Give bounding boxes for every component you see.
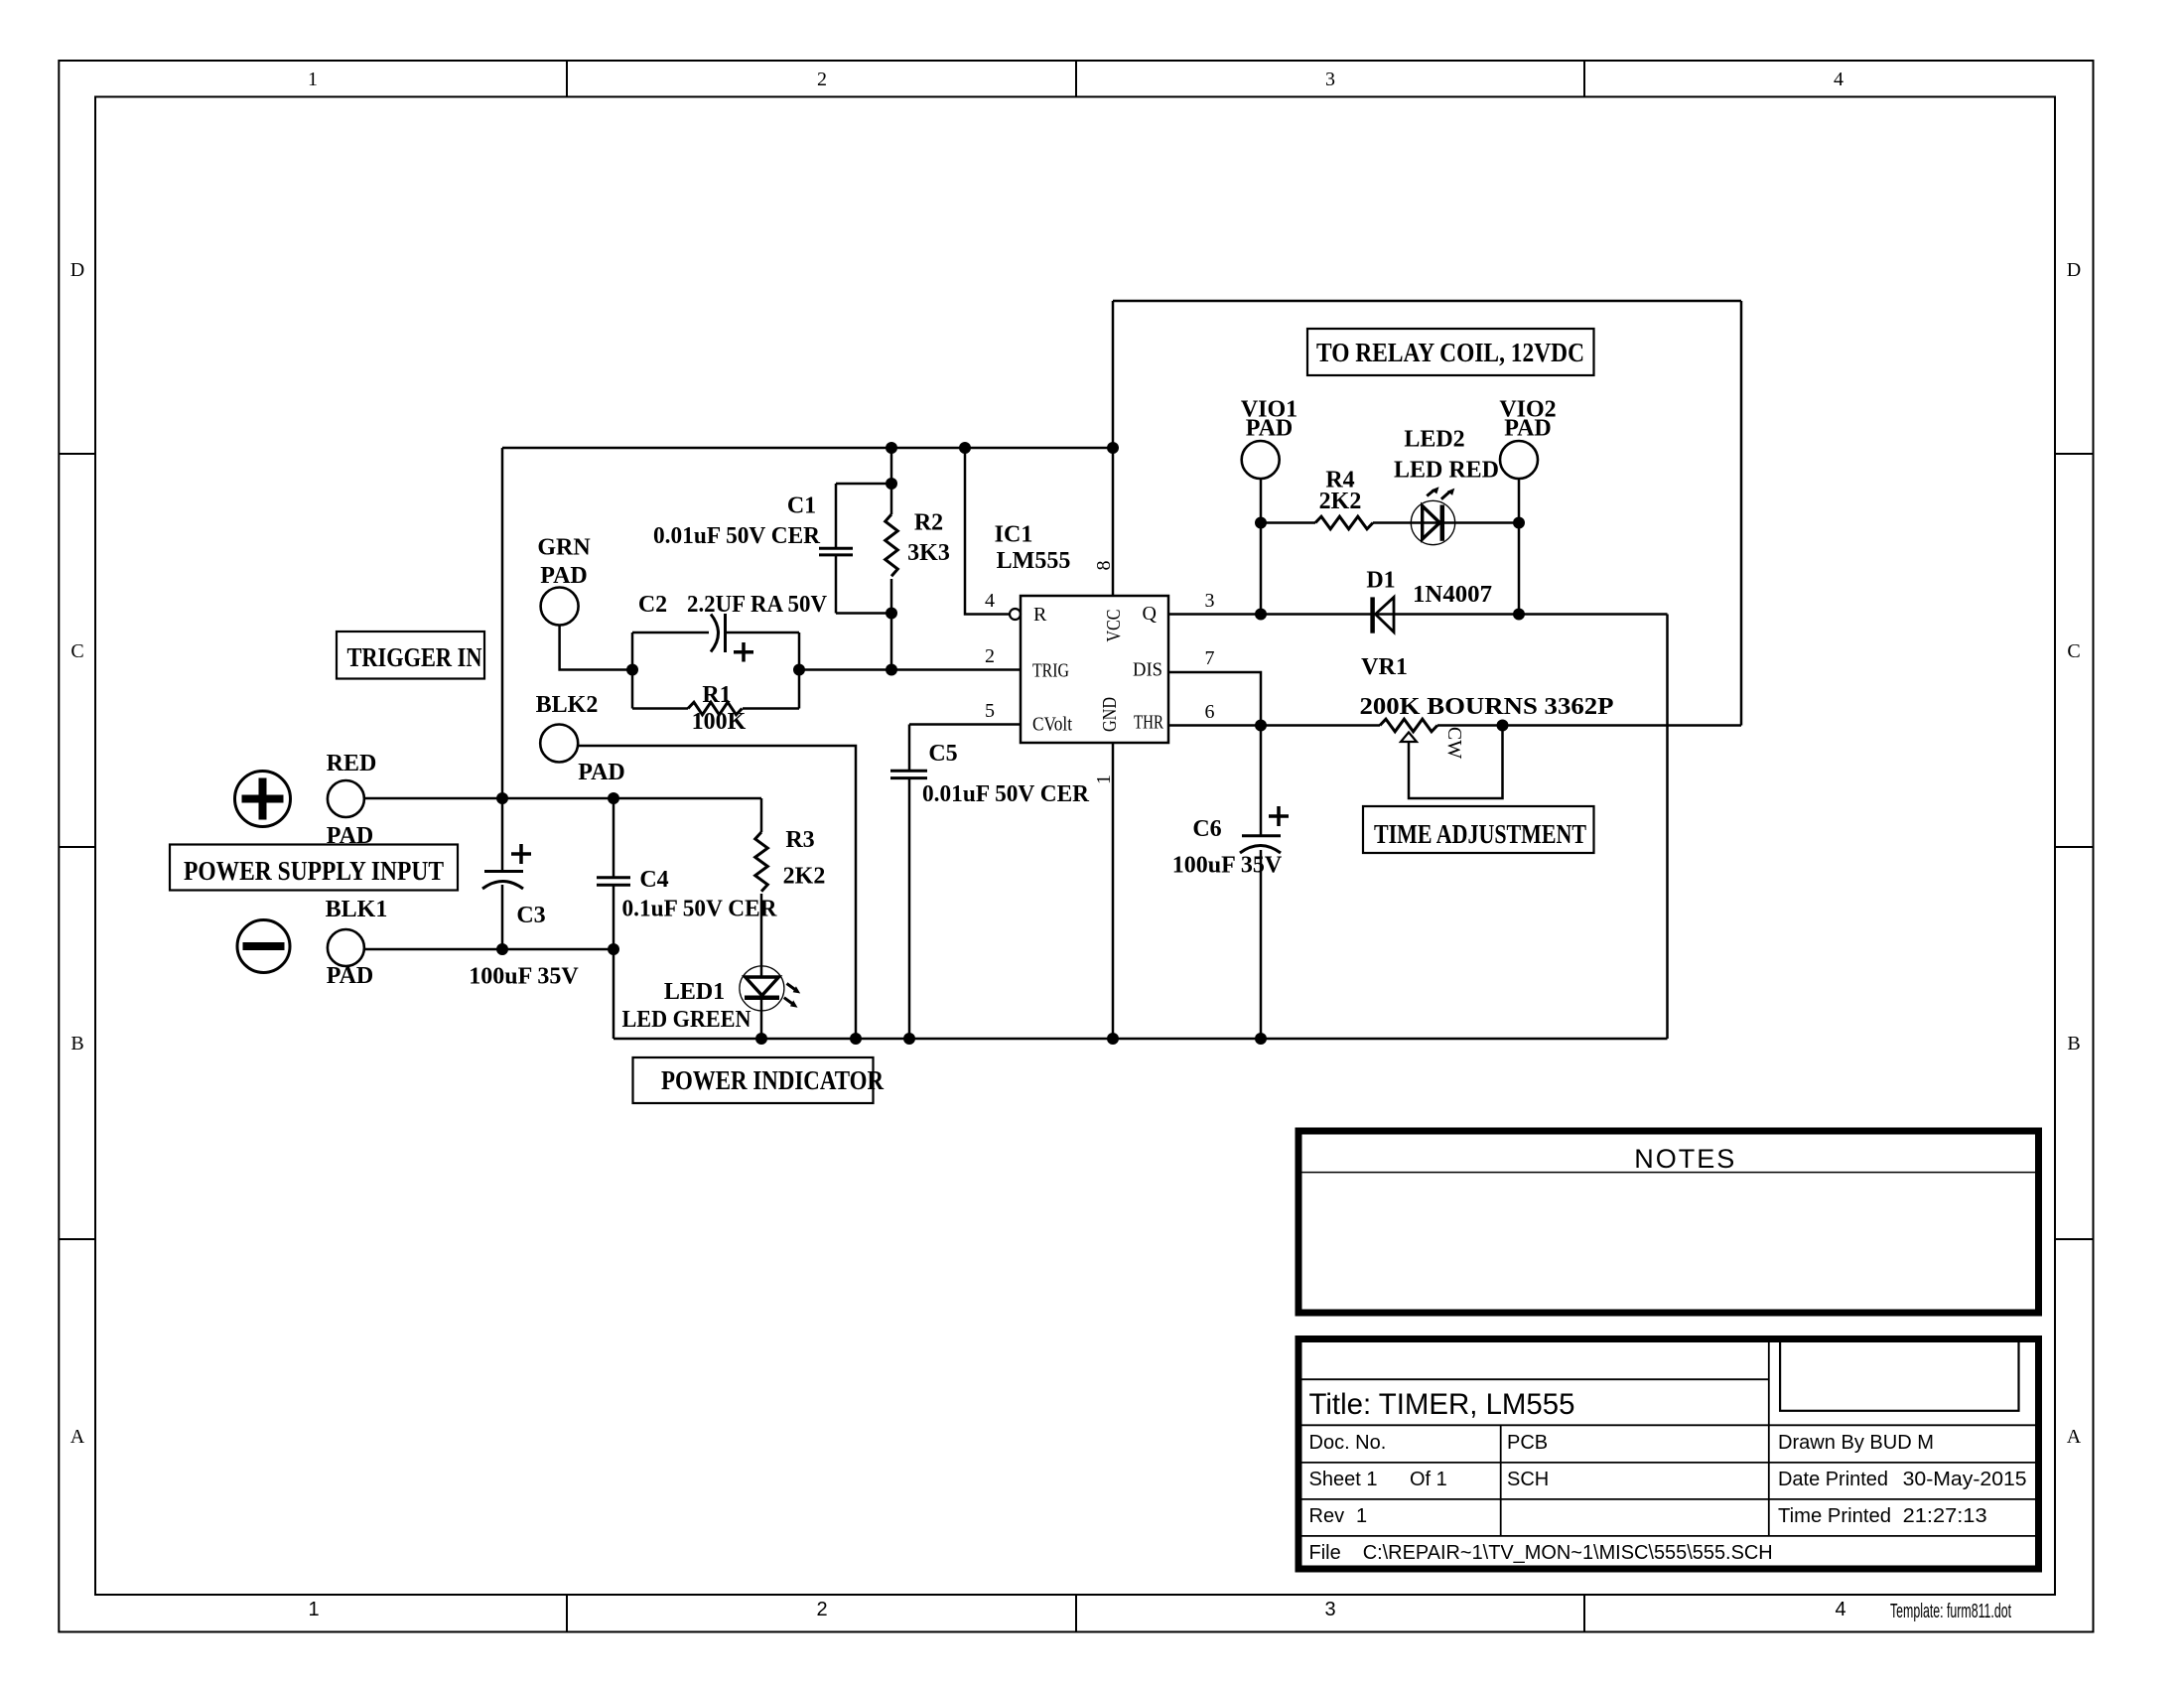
wire: C1/R2 down to trigger line	[890, 614, 893, 670]
svg-text:RED: RED	[327, 751, 377, 776]
svg-text:GND: GND	[1099, 697, 1121, 732]
svg-text:C: C	[2067, 640, 2080, 662]
pad VIO2	[1500, 441, 1538, 479]
wire: pin 1 GND drop	[1112, 743, 1115, 1039]
wire: VCC top rail	[502, 447, 1113, 450]
svg-text:PAD: PAD	[327, 963, 374, 989]
svg-text:Of 1: Of 1	[1410, 1469, 1447, 1490]
svg-text:C: C	[70, 640, 83, 662]
junction: trigger line / C1-R2 drop	[886, 664, 897, 676]
svg-text:PCB: PCB	[1507, 1432, 1548, 1454]
capacitor C2 (polarized, horizontal)	[711, 614, 726, 652]
wire: BLK2 pad horizontal and drop to ground rail	[578, 746, 856, 1039]
junction: R4 line / VIO2 drop	[1513, 517, 1525, 529]
wire: RED pad to R3 corner horizontal	[363, 797, 761, 800]
svg-text:3K3: 3K3	[907, 540, 950, 566]
svg-text:THR: THR	[1134, 712, 1163, 734]
svg-text:CVolt: CVolt	[1032, 714, 1072, 736]
capacitor C1	[819, 548, 853, 555]
title block	[1298, 1338, 2039, 1570]
svg-text:4: 4	[1834, 69, 1843, 90]
diode D1 (cathode left)	[1373, 597, 1394, 633]
svg-text:3: 3	[1205, 590, 1215, 612]
junction: VCC rail / pin4 branch	[959, 442, 971, 454]
pad BLK1	[328, 929, 364, 966]
pad VIO1	[1242, 441, 1280, 479]
svg-text:2K2: 2K2	[783, 864, 826, 890]
wire: C1/R2 top tie	[836, 483, 891, 486]
svg-text:5: 5	[985, 700, 995, 722]
svg-text:VCC: VCC	[1103, 610, 1125, 642]
svg-text:2: 2	[817, 69, 827, 90]
junction: C1/R2 top node	[886, 478, 897, 490]
svg-text:C4: C4	[639, 867, 668, 893]
svg-text:File: File	[1309, 1542, 1341, 1564]
potentiometer VR1	[1380, 719, 1437, 732]
svg-text:100uF 35V: 100uF 35V	[469, 964, 579, 990]
junction: ground rail / BLK2 branch	[850, 1033, 862, 1045]
svg-text:8: 8	[1093, 561, 1115, 571]
svg-text:VR1: VR1	[1361, 654, 1408, 680]
svg-text:Drawn By BUD M: Drawn By BUD M	[1778, 1432, 1934, 1454]
svg-text:IC1: IC1	[995, 522, 1033, 548]
svg-text:SCH: SCH	[1507, 1469, 1549, 1490]
wire: relay loop top side	[1113, 300, 1741, 303]
svg-text:PAD: PAD	[540, 563, 588, 589]
svg-text:4: 4	[1835, 1599, 1845, 1620]
svg-text:LED GREEN: LED GREEN	[622, 1007, 752, 1033]
wire: THR pin 6 line	[1168, 724, 1380, 727]
svg-text:200K BOURNS 3362P: 200K BOURNS 3362P	[1360, 694, 1614, 720]
svg-text:C3: C3	[516, 903, 545, 928]
svg-text:PAD: PAD	[1246, 416, 1294, 442]
wire: combo top edge segments around C2	[632, 632, 709, 634]
op-amp/IC U1 body: IC1 LM555	[1021, 596, 1168, 743]
svg-text:BLK2: BLK2	[536, 692, 599, 718]
minus terminal symbol	[237, 920, 290, 973]
resistor R3	[755, 832, 768, 892]
wire: R4/LED2 line	[1261, 521, 1315, 524]
IC1 pin 4 inversion bubble	[1010, 609, 1021, 620]
svg-text:R2: R2	[914, 510, 943, 536]
wire: Q pin 3 line to right corner	[1168, 613, 1668, 616]
svg-text:POWER SUPPLY INPUT: POWER SUPPLY INPUT	[184, 856, 444, 886]
svg-text:100K: 100K	[692, 709, 747, 735]
wire: VR1 wiper return	[1409, 726, 1503, 799]
wire: R2 vertical segments	[890, 484, 893, 514]
svg-text:Date Printed: Date Printed	[1778, 1469, 1888, 1490]
svg-text:A: A	[70, 1426, 85, 1448]
svg-text:0.01uF 50V CER: 0.01uF 50V CER	[922, 781, 1090, 807]
svg-text:3: 3	[1324, 1599, 1335, 1620]
junction: RED line / C4 branch	[608, 792, 619, 804]
capacitor C6 plus sign	[1269, 806, 1289, 826]
capacitor C6 (polarized electrolytic)	[1240, 836, 1281, 853]
junction: ground rail / pin1 GND	[1107, 1033, 1119, 1045]
svg-text:NOTES: NOTES	[1634, 1144, 1736, 1174]
junction: VCC rail / C1-R2 branch	[886, 442, 897, 454]
wire: pin 5 CVolt line	[909, 723, 1021, 726]
wire: relay loop left side / pin 8 VCC riser	[1112, 301, 1115, 596]
svg-text:2: 2	[985, 645, 995, 667]
junction: ground rail / LED1 branch	[755, 1033, 767, 1045]
junction: RED line / C3 branch	[496, 792, 508, 804]
NOTES box	[1298, 1131, 2039, 1313]
wire: R3/LED1 branch vertical	[760, 798, 763, 832]
svg-text:Time Printed: Time Printed	[1778, 1505, 1891, 1527]
junction: R4 line / VIO1 drop	[1255, 517, 1267, 529]
capacitor C4	[597, 878, 630, 886]
resistor R2	[886, 514, 898, 576]
svg-text:PAD: PAD	[327, 823, 374, 849]
junction: trigger line / combo right node	[793, 664, 805, 676]
svg-text:6: 6	[1205, 701, 1215, 723]
wire: C6 branch vertical	[1260, 726, 1263, 836]
resistor R1	[688, 702, 743, 715]
capacitor C5	[890, 771, 927, 777]
svg-text:C5: C5	[928, 741, 957, 767]
junction: BLK1 line / C4 branch	[608, 943, 619, 955]
svg-text:4: 4	[985, 590, 995, 612]
svg-text:1: 1	[308, 69, 318, 90]
svg-text:1: 1	[1093, 774, 1115, 784]
wire: ground bottom rail	[614, 1038, 1668, 1041]
svg-text:2: 2	[816, 1599, 827, 1620]
wire: C4 branch vertical	[613, 798, 615, 877]
svg-text:TIME ADJUSTMENT: TIME ADJUSTMENT	[1374, 819, 1586, 849]
svg-text:A: A	[2067, 1426, 2082, 1448]
svg-text:PAD: PAD	[578, 760, 625, 785]
junction: ground rail / C5 branch	[903, 1033, 915, 1045]
svg-text:B: B	[70, 1033, 83, 1054]
svg-text:100uF 35V: 100uF 35V	[1172, 853, 1283, 879]
svg-text:C2: C2	[638, 592, 667, 618]
svg-text:TRIGGER IN: TRIGGER IN	[347, 642, 482, 672]
svg-text:CW: CW	[1443, 727, 1465, 759]
LED LED1 (green, pointing down)	[740, 966, 800, 1011]
resistor R4	[1315, 516, 1373, 529]
junction: Q line / VIO1 drop	[1255, 609, 1267, 621]
wire: C5 branch vertical	[908, 725, 911, 772]
svg-text:D: D	[70, 259, 84, 281]
svg-text:LM555: LM555	[997, 548, 1071, 574]
svg-text:30-May-2015: 30-May-2015	[1903, 1469, 2027, 1490]
svg-text:1: 1	[308, 1599, 319, 1620]
svg-text:D: D	[2067, 259, 2081, 281]
svg-text:B: B	[2067, 1033, 2080, 1054]
wire: combo bottom edge segments around R1	[632, 707, 688, 710]
svg-text:GRN: GRN	[537, 535, 591, 561]
pad BLK2	[540, 725, 578, 763]
wire: VIO2 pad drop to Q line	[1518, 478, 1521, 615]
svg-text:0.1uF 50V CER: 0.1uF 50V CER	[622, 897, 778, 922]
svg-text:DIS: DIS	[1133, 659, 1162, 681]
wire: C1/R2 bottom tie	[836, 612, 891, 615]
svg-text:Title: TIMER, LM555: Title: TIMER, LM555	[1309, 1388, 1575, 1421]
junction: C1/R2 bottom node	[886, 608, 897, 620]
wire: trigger line to IC pin 2	[799, 668, 1021, 671]
svg-text:R3: R3	[785, 827, 814, 853]
capacitor C3 (polarized electrolytic)	[482, 872, 523, 890]
svg-text:Template: furm811.dot: Template: furm811.dot	[1890, 1601, 2011, 1622]
svg-text:Sheet 1: Sheet 1	[1309, 1469, 1378, 1490]
svg-text:LED1: LED1	[664, 979, 725, 1005]
wire: DIS pin 7 to THR junction	[1168, 672, 1261, 726]
capacitor C2 plus sign	[734, 642, 753, 662]
svg-text:1: 1	[1356, 1505, 1367, 1527]
svg-text:R: R	[1033, 604, 1047, 626]
label box: TO RELAY COIL, 12VDC	[1307, 329, 1594, 375]
wire: Q-line corner drop across THR to ground rail	[1666, 615, 1669, 1040]
label box: POWER INDICATOR	[633, 1057, 874, 1103]
label box: TIME ADJUSTMENT	[1363, 806, 1594, 853]
svg-text:1N4007: 1N4007	[1413, 582, 1492, 608]
wire: left vertical from VCC rail down to BLK1 line (C3 branch)	[501, 448, 504, 871]
junction: trigger line / combo left node	[626, 664, 638, 676]
junction: THR line / VR1 wiper node	[1497, 720, 1509, 732]
svg-text:TRIG: TRIG	[1032, 660, 1069, 682]
svg-text:7: 7	[1205, 647, 1215, 669]
wire: GRN pad drop to trigger line	[560, 625, 632, 670]
wire: R1/C2 parallel combo outline left/right	[631, 633, 634, 709]
svg-text:LED RED: LED RED	[1394, 458, 1499, 484]
pad GRN	[541, 588, 579, 626]
plus terminal symbol	[235, 772, 291, 827]
svg-text:LED2: LED2	[1404, 427, 1464, 453]
svg-text:3: 3	[1325, 69, 1335, 90]
wire: C1 vertical segments	[835, 484, 838, 548]
label box: TRIGGER IN	[337, 632, 484, 679]
svg-text:R1: R1	[702, 682, 731, 708]
svg-text:Q: Q	[1143, 603, 1158, 625]
svg-text:PAD: PAD	[1504, 416, 1552, 442]
svg-text:2K2: 2K2	[1319, 489, 1362, 514]
wire: C1/R2 branch from VCC rail	[890, 448, 893, 484]
potentiometer VR1 wiper arrow	[1401, 733, 1417, 743]
junction: BLK1 line / C3 branch	[496, 943, 508, 955]
svg-text:C:\REPAIR~1\TV_MON~1\MISC\555\: C:\REPAIR~1\TV_MON~1\MISC\555\555.SCH	[1363, 1542, 1773, 1564]
wire: relay loop right side (VCC feed down to VR1/THR line)	[1740, 301, 1743, 726]
wire: BLK1 pad to C3/C4 horizontal	[364, 948, 614, 951]
wire: pin 4 reset branch	[965, 448, 1010, 615]
junction: Q line / VIO2 drop	[1513, 609, 1525, 621]
svg-text:C6: C6	[1192, 816, 1221, 842]
junction: VCC rail / pin8 riser	[1107, 442, 1119, 454]
svg-text:0.01uF 50V CER: 0.01uF 50V CER	[653, 523, 821, 549]
LED LED2 (red, pointing right)	[1411, 487, 1454, 545]
svg-text:TO RELAY COIL, 12VDC: TO RELAY COIL, 12VDC	[1316, 338, 1584, 367]
svg-text:BLK1: BLK1	[326, 897, 388, 922]
svg-text:2.2UF RA 50V: 2.2UF RA 50V	[687, 592, 828, 618]
junction: ground rail / C6 branch	[1255, 1033, 1267, 1045]
junction: THR line / DIS-C6 node	[1255, 720, 1267, 732]
svg-text:Doc. No.: Doc. No.	[1309, 1432, 1387, 1454]
svg-text:C1: C1	[787, 493, 816, 519]
label box: POWER SUPPLY INPUT	[170, 845, 458, 891]
svg-text:Rev: Rev	[1309, 1505, 1345, 1527]
svg-text:POWER INDICATOR: POWER INDICATOR	[661, 1065, 884, 1095]
pad RED	[328, 780, 364, 817]
wire: VIO1 pad drop to Q line	[1260, 478, 1263, 615]
svg-text:21:27:13: 21:27:13	[1903, 1505, 1987, 1527]
capacitor C3 plus sign	[511, 844, 531, 864]
svg-text:D1: D1	[1366, 568, 1395, 594]
